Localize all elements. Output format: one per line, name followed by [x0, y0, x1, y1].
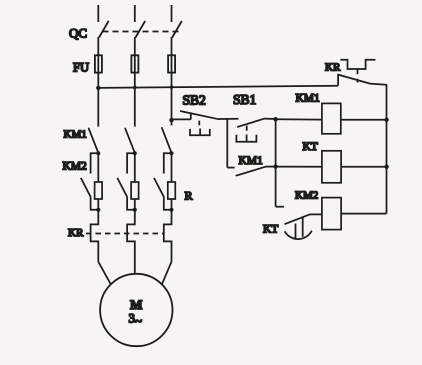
pushbutton SB2 actuator dash [198, 121, 200, 126]
wire phase L2 top stub [134, 5, 136, 22]
timer contact KT delay arc [285, 231, 312, 239]
contactor KM1 main contact pole 2 [125, 128, 135, 152]
thermal relay KR heater pole 2 [127, 210, 135, 274]
wire phase L3 switch to bus [171, 37, 173, 125]
timer contact KT blade [285, 214, 310, 224]
resistor R pole 1 [95, 182, 103, 199]
wire KM2 coil to right rail [341, 213, 387, 215]
contactor KM2 bypass pole 1 [81, 153, 99, 210]
wire L1 resistor branch [97, 153, 99, 210]
svg-text:SB2: SB2 [183, 93, 206, 108]
coil KT [322, 151, 341, 183]
junction node middle rail mid [273, 164, 277, 168]
junction node SB2 tap on L3 [169, 118, 173, 122]
svg-text:R: R [185, 189, 193, 203]
knife switch QC pole 1 blade [99, 22, 108, 38]
junction node L2 below resistor [133, 208, 137, 212]
junction node bus-L3 [170, 85, 174, 89]
timer contact KT stem 2 [302, 217, 304, 237]
svg-text:KR: KR [68, 227, 84, 239]
wire KT coil to right rail [341, 166, 387, 168]
contactor KM1 main contact pole 3 [162, 128, 172, 153]
svg-text:KM2: KM2 [295, 189, 318, 201]
wire right rail [386, 85, 388, 214]
resistor R pole 2 [131, 182, 139, 199]
wire KT contact to KM2 coil [310, 213, 322, 215]
contactor KM2 bypass pole 3 [154, 153, 172, 210]
wire KT contact stub [276, 206, 285, 208]
wire bus step up at KR [337, 75, 339, 86]
contactor KM1 main contact pole 1 [89, 128, 99, 152]
resistor R pole 3 [168, 182, 176, 199]
junction node right rail KT [384, 165, 388, 169]
contactor KM1 auxiliary contact blade [236, 167, 266, 176]
contactor KM2 bypass pole 2 [117, 153, 135, 210]
wire left rail SB branch [226, 119, 228, 168]
pushbutton SB2 left terminal tick [190, 112, 192, 119]
thermal relay KR actuator [340, 60, 375, 69]
svg-text:3~: 3~ [129, 311, 143, 329]
svg-text:KM2: KM2 [63, 161, 88, 173]
coil KM1 [322, 103, 341, 133]
wire L3 tap to SB2 [172, 118, 191, 120]
knife switch QC pole 2 blade [136, 22, 145, 38]
junction node middle rail top [273, 117, 277, 121]
junction node L1 below resistor [96, 208, 100, 212]
thermal relay KR heater pole 3 [164, 210, 172, 262]
svg-text:KM1: KM1 [64, 128, 87, 140]
junction node bus-L1 [96, 86, 100, 90]
wire KM1 aux stub [227, 167, 234, 169]
wire phase L1 top stub [97, 5, 99, 22]
wire middle rail [275, 119, 277, 207]
fuse FU pole 1 [95, 55, 102, 72]
QC linkage dashed line [103, 31, 180, 33]
wire SB2 to SB1 [219, 118, 239, 120]
thermal relay KR actuator dashes [357, 69, 359, 82]
wire L3 resistor branch [171, 153, 173, 210]
junction node L2 above resistor [133, 151, 137, 155]
wire phase L1 switch to bus [97, 37, 99, 127]
timer contact KT stem 1 [295, 224, 297, 239]
pushbutton SB1 blade [238, 119, 265, 127]
wire KM1 aux to rail [266, 166, 276, 168]
wire rail to KM1 coil [276, 118, 322, 120]
wire phase L2 switch to bus [134, 37, 136, 127]
svg-text:KT: KT [263, 223, 278, 235]
pushbutton SB1 actuator cup [236, 135, 256, 142]
thermal relay KR contact blade [338, 75, 386, 85]
motor M circle [100, 274, 172, 346]
wire L2 resistor branch [134, 153, 136, 210]
junction node bus-L2 [133, 86, 137, 90]
pushbutton SB1 terminal tick [246, 126, 248, 131]
svg-text:QC: QC [69, 26, 87, 41]
svg-text:KM1: KM1 [296, 93, 321, 105]
wire SB1 to node [265, 118, 276, 120]
knife switch QC pole 3 blade [173, 22, 182, 38]
wire phase L3 top stub [171, 5, 173, 22]
fuse FU pole 2 [131, 55, 138, 72]
junction node L3 above resistor [170, 151, 174, 155]
junction node L3 below resistor [170, 208, 174, 212]
wire KM1 coil to right rail [341, 119, 387, 121]
junction node right rail KM1 [384, 118, 388, 122]
thermal relay KR heater pole 1 [91, 210, 99, 262]
fuse FU pole 3 [168, 55, 175, 72]
svg-text:KM1: KM1 [239, 155, 264, 167]
coil KM2 [322, 198, 341, 230]
svg-text:SB1: SB1 [233, 92, 256, 107]
pushbutton SB2 actuator cup [190, 129, 210, 136]
wire rail to KT coil [276, 166, 322, 168]
svg-text:KR: KR [325, 61, 341, 73]
junction node L1 above resistor [96, 151, 100, 155]
KR linkage dashed line [86, 233, 164, 235]
svg-text:FU: FU [73, 61, 89, 75]
svg-text:KT: KT [303, 141, 318, 153]
wire top control bus [98, 86, 338, 88]
wire L3 to motor [162, 262, 172, 285]
pushbutton SB2 blade [181, 111, 219, 119]
wire L1 to motor [98, 262, 111, 285]
